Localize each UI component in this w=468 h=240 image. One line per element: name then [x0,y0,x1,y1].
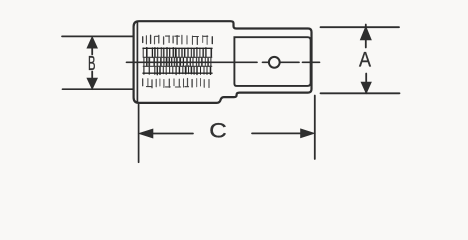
body: knurled collar outer outline [134,21,312,103]
knurl: dense cross-hatch band [143,48,211,75]
knurl: bottom tick row [143,79,209,88]
pin hole circle [269,57,280,68]
dim C: left arrow and line [139,129,193,138]
dim C: left extension line [138,105,140,163]
dim B: bottom extension line [63,88,134,90]
knurl: top tick row [143,35,213,44]
dim B: top extension line [62,35,134,37]
socket bore: inner rectangle [234,37,310,86]
svg-text:A: A [359,48,372,72]
body: left face chamfer line [136,22,138,102]
dim A: up arrow [361,25,372,48]
dim A: bottom extension line [321,92,400,94]
dim A: down arrow [361,74,371,94]
centerline through part axis [127,61,320,63]
dim C: right extension line [314,96,316,160]
dim A: top extension line [321,26,400,28]
dim B: up arrow [87,37,97,55]
svg-text:B: B [88,53,96,75]
dim C: right arrow and line [252,129,314,138]
svg-text:C: C [209,120,227,143]
dim B: down arrow [87,72,97,89]
knurl: band horizontal lines [143,48,212,73]
